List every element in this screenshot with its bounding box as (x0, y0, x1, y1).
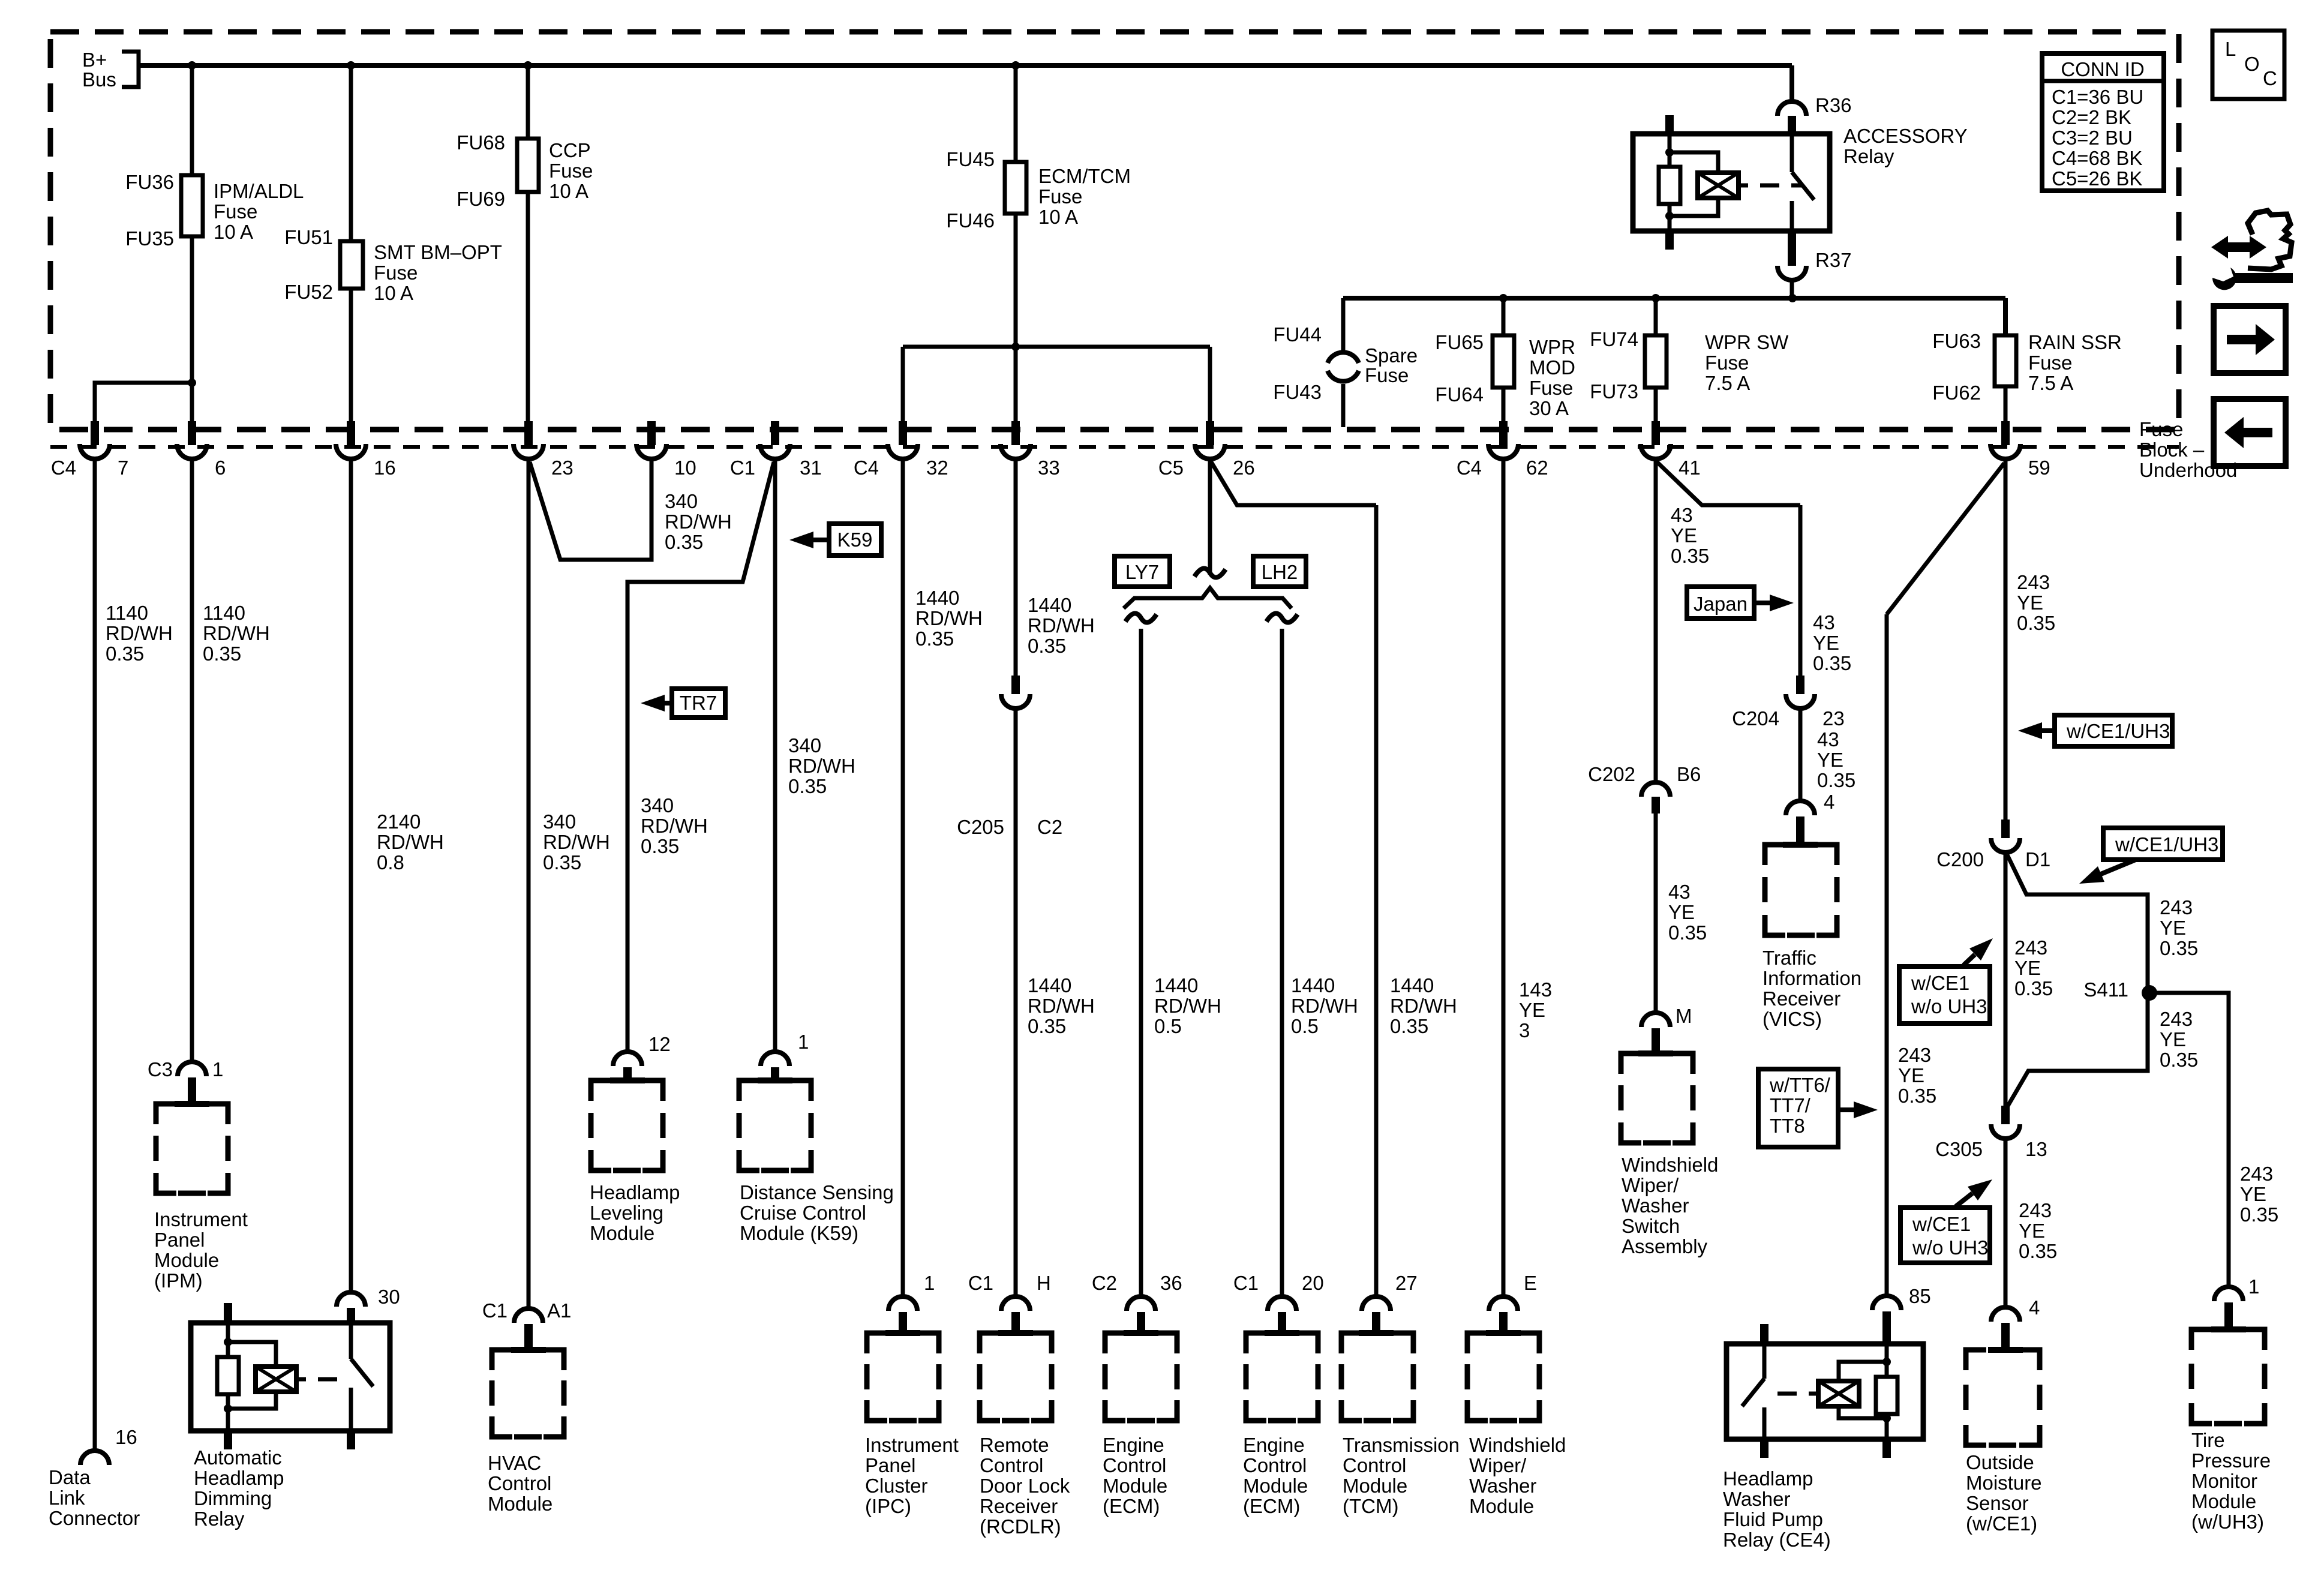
wire FU52 to pin 16 (349, 289, 353, 427)
icon arrow left box (2214, 399, 2286, 466)
svg-text:20: 20 (1302, 1272, 1324, 1294)
CE4 relay switch blade (1760, 1324, 1768, 1344)
wire C200 to C305 (2004, 854, 2008, 1107)
svg-text:Instrument: Instrument (865, 1434, 959, 1456)
svg-text:FU43: FU43 (1273, 381, 1322, 403)
svg-text:C202: C202 (1588, 763, 1635, 785)
svg-text:340: 340 (788, 734, 821, 757)
connector C305 13 (2001, 1106, 2010, 1124)
svg-text:SMT BM–OPT: SMT BM–OPT (374, 241, 502, 263)
svg-text:0.35: 0.35 (2160, 937, 2198, 959)
svg-text:243: 243 (2014, 936, 2047, 959)
connector ECM C2 36 (1127, 1296, 1155, 1311)
connector data link 16 (80, 1451, 109, 1465)
pin 59 (2001, 421, 2010, 445)
wire pin7 to data link connector 1140 RD/WH (93, 459, 97, 1451)
svg-text:Automatic: Automatic (194, 1446, 282, 1469)
wire pin32 to IPC 1440 RD/WH (901, 459, 905, 1296)
junction pin7 tap (188, 379, 196, 387)
svg-text:LH2: LH2 (1262, 561, 1298, 583)
svg-text:YE: YE (2160, 1028, 2186, 1050)
svg-text:4: 4 (1824, 791, 1834, 813)
wire pin23 to HVAC 340 RD/WH (527, 459, 531, 1308)
svg-text:Module (K59): Module (K59) (740, 1222, 858, 1244)
svg-text:w/CE1: w/CE1 (1911, 972, 1969, 994)
module Instrument Panel Module IPM (156, 1104, 176, 1124)
wire FU46 to pins 32/33/26 (1014, 214, 1018, 427)
svg-text:YE: YE (1668, 901, 1695, 923)
svg-text:Washer: Washer (1469, 1475, 1536, 1497)
fuse FU63/FU62 RAIN SSR 7.5A (2003, 298, 2008, 335)
module HVAC Control Module (492, 1350, 512, 1370)
svg-text:Engine: Engine (1103, 1434, 1164, 1456)
svg-text:Japan: Japan (1694, 593, 1747, 615)
svg-text:YE: YE (2160, 917, 2186, 939)
svg-text:C305: C305 (1935, 1138, 1983, 1160)
svg-text:10 A: 10 A (374, 282, 413, 304)
svg-text:C200: C200 (1936, 848, 1984, 870)
relay coil (box with X) (1698, 173, 1739, 198)
svg-text:FU65: FU65 (1435, 331, 1484, 353)
svg-text:1: 1 (212, 1058, 223, 1080)
svg-text:Fuse: Fuse (214, 200, 257, 223)
fuse block underhood dashed border (50, 32, 2179, 430)
svg-text:Module: Module (1243, 1475, 1308, 1497)
module Tire Pressure Monitor Module (2191, 1329, 2212, 1350)
svg-text:YE: YE (1817, 749, 1843, 771)
wire C204 to VICS (1798, 710, 1803, 801)
svg-text:RD/WH: RD/WH (543, 831, 610, 853)
svg-text:TT7/: TT7/ (1770, 1094, 1811, 1116)
svg-text:23: 23 (1822, 707, 1845, 730)
svg-text:D1: D1 (2025, 848, 2050, 870)
svg-text:YE: YE (1671, 524, 1697, 547)
svg-text:Control: Control (1103, 1454, 1166, 1476)
svg-text:RD/WH: RD/WH (1154, 995, 1221, 1017)
connector ECM C1 20 (1268, 1296, 1296, 1311)
svg-text:FU36: FU36 (125, 171, 174, 193)
svg-text:YE: YE (2019, 1220, 2045, 1242)
svg-text:Headlamp: Headlamp (194, 1467, 284, 1489)
svg-text:(RCDLR): (RCDLR) (980, 1515, 1061, 1538)
connector relay pin 30 (337, 1292, 365, 1307)
svg-text:0.35: 0.35 (1671, 545, 1709, 567)
connector C205 C2 (1011, 676, 1020, 694)
svg-text:RD/WH: RD/WH (641, 815, 708, 837)
pin 31 C1 (771, 421, 779, 445)
relay ACCESSORY box (1633, 134, 1830, 231)
svg-text:43: 43 (1671, 504, 1693, 526)
svg-text:Washer: Washer (1622, 1194, 1689, 1217)
svg-text:0.35: 0.35 (106, 643, 144, 665)
connector C204 23 (1796, 676, 1804, 694)
svg-text:Receiver: Receiver (1762, 987, 1840, 1010)
svg-text:Traffic: Traffic (1762, 947, 1816, 969)
svg-text:Block –: Block – (2139, 439, 2205, 461)
svg-text:32: 32 (926, 457, 948, 479)
svg-text:33: 33 (1038, 457, 1060, 479)
svg-text:Relay (CE4): Relay (CE4) (1723, 1529, 1831, 1551)
option box LH2 (1253, 556, 1306, 587)
svg-text:Control: Control (980, 1454, 1043, 1476)
svg-text:FU64: FU64 (1435, 383, 1484, 406)
wire C305 to outside moisture sensor (2004, 1140, 2008, 1307)
pin 62 C4 (1499, 421, 1508, 445)
pin 32 C4 (899, 421, 907, 445)
svg-text:0.35: 0.35 (915, 628, 954, 650)
svg-text:FU68: FU68 (457, 131, 505, 154)
svg-text:Fuse: Fuse (549, 160, 593, 182)
svg-text:Module: Module (1343, 1475, 1407, 1497)
svg-text:CCP: CCP (549, 139, 591, 161)
option arrow w/CE1/UH3 upper (2055, 715, 2172, 746)
wire pin62 to wiper washer module 143 YE 3 (1502, 459, 1506, 1296)
svg-text:CONN ID: CONN ID (2061, 58, 2144, 80)
wire FU69 to pin 23 (526, 192, 530, 427)
junction bus2 (1652, 294, 1660, 302)
connector R37 (1788, 247, 1796, 266)
junction bus (1011, 61, 1020, 70)
svg-text:Fuse: Fuse (1038, 185, 1082, 208)
svg-text:Door Lock: Door Lock (980, 1475, 1070, 1497)
svg-text:Panel: Panel (154, 1229, 205, 1251)
svg-text:(VICS): (VICS) (1762, 1008, 1822, 1030)
svg-text:Engine: Engine (1243, 1434, 1305, 1456)
svg-text:Windshield: Windshield (1469, 1434, 1566, 1456)
svg-text:1440: 1440 (915, 587, 959, 609)
svg-text:62: 62 (1526, 457, 1548, 479)
svg-text:RD/WH: RD/WH (106, 622, 173, 644)
CE4 relay coil branch (1839, 1362, 1887, 1381)
svg-text:1: 1 (2248, 1275, 2259, 1298)
svg-text:0.8: 0.8 (377, 851, 404, 873)
wire relay output bus (1343, 296, 2005, 301)
fuse FU51/FU52 SMT BM-OPT 10A (340, 241, 363, 289)
svg-text:0.35: 0.35 (2160, 1049, 2198, 1071)
svg-text:Module: Module (1469, 1495, 1534, 1517)
svg-text:1140: 1140 (106, 602, 148, 624)
svg-text:0.35: 0.35 (543, 851, 581, 873)
svg-text:RD/WH: RD/WH (1390, 995, 1457, 1017)
svg-text:RAIN SSR: RAIN SSR (2028, 331, 2122, 353)
svg-text:Tire: Tire (2191, 1429, 2225, 1451)
svg-text:w/CE1/UH3: w/CE1/UH3 (2115, 833, 2218, 855)
svg-text:Headlamp: Headlamp (1723, 1467, 1813, 1490)
pin 41 (1652, 421, 1660, 445)
svg-text:C4: C4 (51, 457, 76, 479)
svg-text:Outside: Outside (1966, 1451, 2034, 1473)
svg-text:FU44: FU44 (1273, 323, 1322, 346)
svg-text:10 A: 10 A (549, 180, 588, 202)
svg-text:Underhood: Underhood (2139, 459, 2237, 481)
svg-text:Cluster: Cluster (865, 1475, 928, 1497)
dimming relay coil (box with X) (256, 1367, 296, 1392)
svg-text:243: 243 (2240, 1163, 2273, 1185)
svg-text:340: 340 (641, 794, 674, 816)
svg-text:H: H (1037, 1272, 1051, 1294)
module Engine Control Module ECM 2 (1246, 1333, 1266, 1353)
junction R37 bus2 (1788, 294, 1797, 302)
svg-text:0.35: 0.35 (641, 835, 679, 857)
module Traffic Information Receiver VICS (1765, 845, 1785, 865)
svg-text:Wiper/: Wiper/ (1469, 1454, 1527, 1476)
svg-text:16: 16 (115, 1426, 137, 1448)
svg-text:1: 1 (924, 1272, 935, 1294)
svg-text:C5: C5 (1158, 457, 1184, 479)
pin 7 (91, 421, 99, 445)
wire pin33 1440 RD/WH (1014, 459, 1018, 677)
option split squiggle (1194, 568, 1226, 577)
svg-text:A1: A1 (547, 1299, 571, 1322)
CE4 relay coil (box with X) (1818, 1381, 1859, 1406)
svg-text:41: 41 (1679, 457, 1701, 479)
pin 6 (188, 421, 196, 445)
svg-text:YE: YE (1898, 1064, 1924, 1086)
svg-text:243: 243 (2017, 571, 2050, 593)
svg-text:30 A: 30 A (1529, 397, 1569, 419)
connector HVAC C1 A1 (514, 1308, 543, 1323)
svg-text:143: 143 (1519, 978, 1552, 1001)
wire jumper pin23 to pin10 (530, 459, 651, 560)
svg-text:Fuse: Fuse (1365, 364, 1409, 386)
svg-text:243: 243 (1898, 1044, 1931, 1066)
svg-text:(w/UH3): (w/UH3) (2191, 1511, 2264, 1533)
resistor CE4 (1876, 1377, 1897, 1414)
svg-text:(IPC): (IPC) (865, 1495, 911, 1517)
pin 23 (524, 421, 533, 445)
svg-text:Relay: Relay (194, 1508, 245, 1530)
svg-text:Spare: Spare (1365, 344, 1418, 367)
svg-text:43: 43 (1668, 881, 1691, 903)
svg-text:Dimming: Dimming (194, 1487, 272, 1509)
svg-text:Link: Link (49, 1487, 85, 1509)
junction bus (188, 61, 196, 70)
connector C202 B6 (1641, 782, 1670, 797)
svg-text:26: 26 (1233, 457, 1255, 479)
svg-text:Control: Control (488, 1472, 551, 1494)
svg-text:FU45: FU45 (946, 148, 995, 170)
svg-text:Windshield: Windshield (1622, 1154, 1718, 1176)
svg-text:C1: C1 (1233, 1272, 1259, 1294)
svg-text:30: 30 (378, 1286, 400, 1308)
svg-text:Relay: Relay (1843, 145, 1894, 167)
svg-text:7.5 A: 7.5 A (1705, 372, 1750, 394)
wire R37 to bus2 (1790, 281, 1794, 298)
svg-text:C5=26 BK: C5=26 BK (2052, 167, 2142, 190)
svg-text:7.5 A: 7.5 A (2028, 372, 2073, 394)
svg-text:Transmission: Transmission (1343, 1434, 1460, 1456)
connector outside moisture sensor pin 4 (1991, 1307, 2020, 1322)
connector RCDLR C1 H (1001, 1296, 1030, 1311)
CE4 relay resistor leg (1885, 1344, 1889, 1377)
module Remote Control Door Lock Receiver (980, 1333, 1000, 1353)
connector distance sensing pin 1 (761, 1052, 789, 1066)
svg-text:Fuse: Fuse (2028, 352, 2072, 374)
svg-text:13: 13 (2025, 1138, 2047, 1160)
wire pin59 243 YE 0.35 to C200 (2004, 459, 2008, 821)
svg-text:1440: 1440 (1028, 594, 1071, 616)
svg-text:YE: YE (2014, 957, 2041, 979)
svg-text:Remote: Remote (980, 1434, 1049, 1456)
svg-text:Switch: Switch (1622, 1215, 1680, 1237)
dimming relay coil leg (224, 1303, 232, 1323)
svg-text:Information: Information (1762, 967, 1861, 989)
svg-text:(TCM): (TCM) (1343, 1495, 1398, 1517)
svg-text:1440: 1440 (1390, 974, 1434, 996)
svg-text:Bus: Bus (82, 68, 116, 91)
svg-text:Receiver: Receiver (980, 1495, 1058, 1517)
pin 33 (1011, 421, 1020, 445)
svg-text:1440: 1440 (1154, 974, 1198, 996)
connector VICS pin 4 (1786, 801, 1815, 815)
svg-text:TT8: TT8 (1770, 1115, 1805, 1137)
svg-text:43: 43 (1813, 611, 1835, 634)
junction bus (524, 61, 532, 70)
svg-text:4: 4 (2029, 1296, 2040, 1319)
svg-text:C3: C3 (148, 1058, 173, 1080)
connector relay pin 85 (1872, 1296, 1901, 1310)
connector WW switch assembly pin M (1641, 1013, 1670, 1027)
svg-text:YE: YE (1519, 999, 1545, 1021)
svg-text:C1: C1 (482, 1299, 508, 1322)
junction FU46 split (1011, 343, 1020, 351)
module Distance Sensing Cruise Control Module K59 (739, 1080, 759, 1101)
dimming relay switch blade (349, 1323, 353, 1359)
svg-text:6: 6 (215, 457, 226, 479)
splice S411 (2142, 985, 2157, 1001)
dimming relay dashes (296, 1377, 306, 1382)
connector WW module pin E (1489, 1296, 1518, 1311)
svg-text:RD/WH: RD/WH (1028, 995, 1095, 1017)
svg-text:0.35: 0.35 (1817, 769, 1855, 791)
svg-text:0.35: 0.35 (2019, 1240, 2057, 1262)
wire pin31 branch to headlamp leveling (627, 462, 774, 1052)
svg-text:3: 3 (1519, 1019, 1530, 1041)
svg-text:Distance Sensing: Distance Sensing (740, 1181, 894, 1203)
connector tire pressure monitor pin 1 (2214, 1287, 2243, 1301)
svg-text:B6: B6 (1677, 763, 1701, 785)
connector TCM pin 27 (1362, 1296, 1391, 1311)
svg-text:w/CE1: w/CE1 (1912, 1213, 1971, 1235)
CE4 relay dashes (1809, 1392, 1818, 1396)
svg-text:w/TT6/: w/TT6/ (1769, 1074, 1831, 1096)
wire FU45 feed (1014, 65, 1018, 162)
svg-text:ECM/TCM: ECM/TCM (1038, 165, 1131, 187)
svg-text:1: 1 (798, 1031, 809, 1053)
svg-text:43: 43 (1817, 728, 1839, 751)
svg-text:0.5: 0.5 (1291, 1015, 1319, 1037)
svg-text:C1=36 BU: C1=36 BU (2052, 86, 2143, 108)
wire pin31 to distance sensing module 340 RD/WH (773, 459, 777, 1052)
svg-text:0.35: 0.35 (203, 643, 241, 665)
pin 26 C5 (1206, 421, 1214, 445)
svg-text:Fuse: Fuse (1705, 352, 1749, 374)
svg-text:243: 243 (2019, 1199, 2052, 1221)
svg-text:FU35: FU35 (125, 227, 174, 250)
fuse FU45/FU46 ECM/TCM 10A (1005, 162, 1026, 214)
fuse FU65/FU64 WPR MOD 30A (1502, 298, 1506, 335)
wire C200 branch to S411 (2007, 855, 2148, 993)
option arrow K59 (829, 524, 881, 556)
svg-text:0.35: 0.35 (1028, 635, 1066, 657)
svg-text:0.35: 0.35 (665, 531, 703, 553)
svg-text:10 A: 10 A (1038, 206, 1078, 228)
svg-text:0.35: 0.35 (1668, 921, 1707, 944)
svg-text:C2: C2 (1092, 1272, 1117, 1294)
wire pin41 43 YE 0.35 (1654, 459, 1658, 781)
svg-text:0.35: 0.35 (2017, 612, 2055, 634)
junction bus (347, 61, 355, 70)
connector headlamp leveling pin 12 (613, 1052, 642, 1066)
svg-text:0.35: 0.35 (2240, 1203, 2278, 1226)
option arrow w/CE1/UH3 lower (2103, 828, 2223, 860)
option box LY7 (1115, 556, 1170, 587)
svg-text:RD/WH: RD/WH (665, 511, 732, 533)
svg-text:ACCESSORY: ACCESSORY (1843, 125, 1968, 147)
junction bus2 (1499, 294, 1508, 302)
icon wrench with arrows (2211, 236, 2266, 259)
svg-text:0.35: 0.35 (1390, 1015, 1428, 1037)
pin 10 (647, 421, 656, 445)
svg-text:YE: YE (1813, 632, 1839, 654)
module Windshield Wiper Washer Module (1467, 1333, 1488, 1353)
relay coil to switch dashes (1739, 184, 1748, 188)
relay Headlamp Washer Fluid Pump box (1727, 1344, 1923, 1439)
svg-text:M: M (1676, 1005, 1692, 1027)
wire bus to R36 (1789, 65, 1794, 101)
wire FU35 to pins 6/7 (190, 236, 194, 427)
svg-text:0.35: 0.35 (1813, 652, 1851, 674)
svg-text:C204: C204 (1732, 707, 1779, 730)
relay coil branch (1670, 152, 1718, 173)
wire pin26 branch to TCM (1211, 462, 1376, 505)
svg-text:Leveling: Leveling (590, 1202, 663, 1224)
wire pin6 to IPM 1140 RD/WH (190, 459, 194, 1062)
svg-text:Pressure: Pressure (2191, 1449, 2271, 1472)
wire to pin 32 and pin 26 (903, 345, 1210, 349)
svg-text:Control: Control (1343, 1454, 1406, 1476)
svg-text:0.35: 0.35 (1028, 1015, 1066, 1037)
svg-text:0.35: 0.35 (2014, 977, 2053, 999)
svg-text:Data: Data (49, 1466, 91, 1488)
svg-text:1440: 1440 (1028, 974, 1071, 996)
svg-text:C1: C1 (968, 1272, 993, 1294)
svg-text:w/o UH3: w/o UH3 (1912, 1236, 1989, 1259)
svg-text:w/o UH3: w/o UH3 (1911, 995, 1987, 1017)
svg-text:0.35: 0.35 (1898, 1085, 1936, 1107)
option arrow Japan (1687, 587, 1754, 619)
svg-text:RD/WH: RD/WH (915, 607, 983, 629)
svg-text:R36: R36 (1815, 94, 1852, 116)
svg-text:C1: C1 (730, 457, 755, 479)
wire FU68 feed (526, 65, 530, 139)
svg-text:31: 31 (800, 457, 822, 479)
svg-text:RD/WH: RD/WH (788, 755, 855, 777)
svg-text:12: 12 (648, 1033, 671, 1055)
connector C200 D1 (2001, 819, 2010, 838)
svg-text:K59: K59 (837, 529, 873, 551)
svg-text:Wiper/: Wiper/ (1622, 1174, 1679, 1196)
svg-text:Instrument: Instrument (154, 1208, 248, 1230)
module Outside Moisture Sensor (1966, 1350, 1986, 1370)
svg-text:LY7: LY7 (1125, 561, 1159, 583)
svg-text:w/CE1/UH3: w/CE1/UH3 (2066, 720, 2170, 742)
svg-text:27: 27 (1395, 1272, 1418, 1294)
svg-text:B+: B+ (82, 49, 107, 71)
svg-text:WPR: WPR (1529, 336, 1575, 358)
svg-text:7: 7 (118, 457, 128, 479)
svg-text:YE: YE (2240, 1183, 2266, 1205)
